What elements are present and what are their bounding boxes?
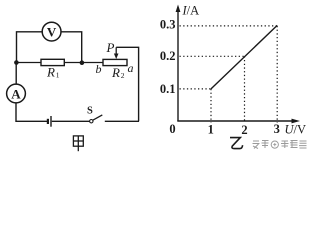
dotted level 0.1 xyxy=(180,88,212,90)
graph y-axis xyxy=(177,9,179,121)
svg-text:I/A: I/A xyxy=(182,4,200,18)
wire switch to bottom-right corner xyxy=(105,120,139,122)
wire ammeter to bottom-left corner xyxy=(16,103,47,121)
resistor R1 xyxy=(41,59,64,65)
caption 甲 (drawn) xyxy=(73,136,83,151)
svg-text:R: R xyxy=(46,65,55,80)
dotted vertical U=1 xyxy=(210,89,212,123)
svg-text:0.2: 0.2 xyxy=(160,49,176,63)
svg-text:1: 1 xyxy=(56,70,60,79)
svg-text:a: a xyxy=(128,61,134,75)
slider arrow of R2 xyxy=(115,47,117,55)
wire battery to switch xyxy=(52,120,90,122)
voltmeter V xyxy=(42,22,61,41)
node left junction xyxy=(14,60,19,65)
graph x-axis xyxy=(177,120,293,122)
node right junction xyxy=(80,60,85,65)
svg-text:0.3: 0.3 xyxy=(160,17,176,31)
rheostat R2 xyxy=(103,59,127,65)
wire node to R1 xyxy=(16,62,41,64)
svg-text:P: P xyxy=(106,40,115,55)
svg-text:V: V xyxy=(47,24,57,39)
slider wire to right rail xyxy=(116,47,138,121)
svg-text:A: A xyxy=(11,86,21,101)
wire R1 to R2 xyxy=(64,62,103,64)
caption 乙 (drawn) xyxy=(230,138,243,149)
dotted vertical U=2 xyxy=(244,56,246,122)
wire top-left loop xyxy=(17,32,43,63)
svg-text:R: R xyxy=(111,65,120,80)
svg-text:2: 2 xyxy=(121,71,125,80)
wire V to right corner, down to node xyxy=(61,32,82,63)
dotted level 0.3 xyxy=(180,25,278,27)
svg-text:U/V: U/V xyxy=(285,123,307,137)
dotted vertical U=3 xyxy=(276,26,278,123)
svg-text:S: S xyxy=(87,106,93,117)
battery cell xyxy=(47,119,49,124)
svg-text:0.1: 0.1 xyxy=(160,82,176,96)
dotted level 0.2 xyxy=(180,55,245,57)
svg-text:b: b xyxy=(96,62,102,76)
svg-text:0: 0 xyxy=(169,122,175,136)
ammeter A xyxy=(7,84,26,103)
svg-text:2: 2 xyxy=(241,123,247,137)
svg-text:3: 3 xyxy=(274,122,280,136)
watermark xyxy=(253,141,307,149)
left wire node to ammeter xyxy=(15,63,17,85)
svg-text:1: 1 xyxy=(208,123,214,137)
I-U line xyxy=(211,25,277,89)
